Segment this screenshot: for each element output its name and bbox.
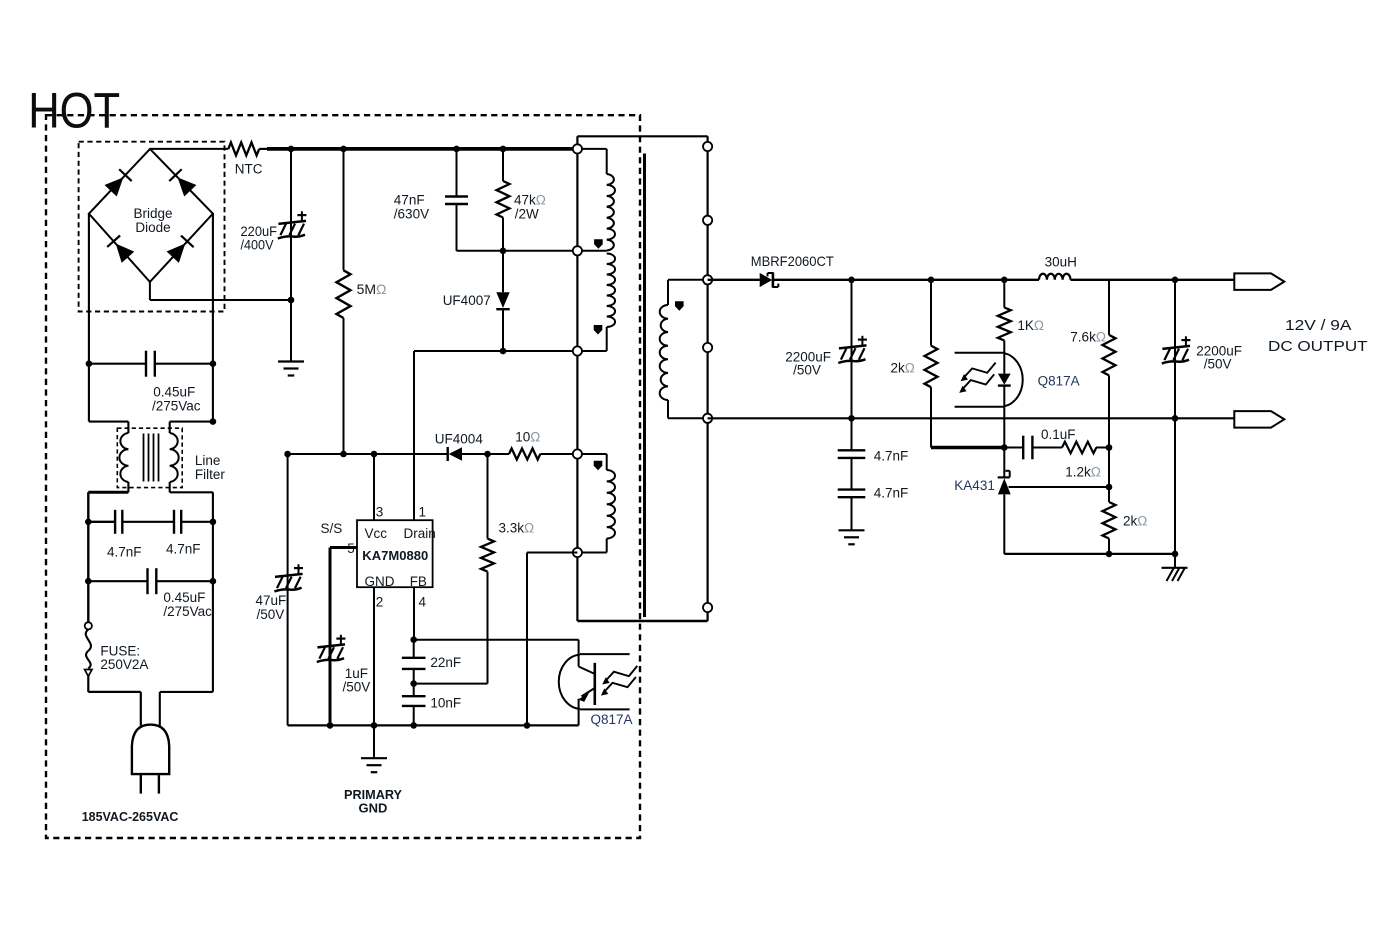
svg-text:4.7nF: 4.7nF <box>874 486 909 501</box>
node junction out cap1 <box>848 277 855 284</box>
wire 47k top lead <box>502 149 504 181</box>
resistor R3 10 ohm <box>509 449 540 460</box>
output terminal + (arrow) <box>1234 273 1284 290</box>
ground (primary bulk) <box>278 362 304 376</box>
capacitor C5 22nF <box>402 658 426 669</box>
output terminal - (arrow) <box>1234 411 1284 428</box>
ground (PRIMARY GND) <box>361 758 387 772</box>
node junction UF4007-drain <box>500 348 507 355</box>
ground (secondary chassis) <box>1162 568 1188 581</box>
wire pin4 FB <box>413 587 415 640</box>
wire bridge right vertex down to X-cap <box>212 214 214 364</box>
svg-text:KA7M0880: KA7M0880 <box>362 548 428 563</box>
wire 0.1uF to 1.2k <box>1032 447 1062 449</box>
svg-text:10nF: 10nF <box>430 696 461 711</box>
svg-text:/400V: /400V <box>241 238 274 253</box>
label Q817A (primary) <box>591 712 633 727</box>
transformer secondary winding <box>660 280 708 419</box>
label 1uF /50V <box>343 666 371 695</box>
svg-text:4.7nF: 4.7nF <box>874 449 909 464</box>
polarity dot winding2 <box>594 325 603 335</box>
wire 4.7nF bottom <box>851 497 853 530</box>
capacitor C9 4.7nF <box>838 490 866 498</box>
wire KA431 anode <box>1003 494 1005 554</box>
label 47kΩ /2W <box>514 193 546 222</box>
wire 2200uF#1 column <box>851 280 853 419</box>
inductor L1 30uH <box>1039 274 1071 280</box>
wire 5M bottom lead to Vcc rail <box>343 318 345 454</box>
resistor R1 5M <box>337 270 351 318</box>
svg-text:Vcc: Vcc <box>365 526 388 541</box>
wire snubber node to transformer <box>457 250 578 252</box>
label 3.3kΩ <box>499 521 535 536</box>
label FUSE 250V2A <box>100 644 148 673</box>
svg-text:Filter: Filter <box>195 467 226 482</box>
capacitor C3 47uF/50V (electrolytic) <box>274 564 303 591</box>
resistor R5 2k <box>925 346 938 388</box>
wire 22nF top lead <box>413 640 415 658</box>
node junction KA431 cathode net <box>1001 444 1008 451</box>
svg-text:UF4004: UF4004 <box>435 432 484 447</box>
wire UF4007 anode lead <box>502 251 504 292</box>
line filter dashed box <box>117 428 182 487</box>
wire Vcc rail left segment <box>288 453 448 455</box>
diode D5 UF4007 <box>496 292 509 351</box>
label 10nF <box>430 696 461 711</box>
label 4.7nF (left) <box>107 545 142 560</box>
label 22nF <box>430 655 461 670</box>
pin 1 label <box>419 505 427 520</box>
wire right leg to plug <box>160 692 213 726</box>
wire bridge bottom vertex to primary bulk cap <box>150 282 291 300</box>
terminal pin primary mid <box>573 246 582 255</box>
wire pin2 GND <box>373 587 375 725</box>
node junction gnd-pin2 <box>371 722 378 729</box>
svg-text:/50V: /50V <box>1204 357 1232 372</box>
node junction UF4004-10ohm-3.3k <box>484 451 491 458</box>
pin 2 label <box>376 595 384 610</box>
wire 22nF-10nF node <box>413 669 415 696</box>
label 1.2kΩ <box>1065 465 1101 480</box>
label HOT <box>28 81 120 138</box>
terminal pin sec 2 <box>703 216 712 225</box>
wire 10nF bottom lead <box>413 706 415 726</box>
line filter core lines <box>144 434 159 482</box>
svg-text:HOT: HOT <box>28 81 120 138</box>
svg-text:47kΩ: 47kΩ <box>514 193 546 208</box>
capacitor C8 4.7nF <box>838 450 866 458</box>
wire 1.2k to 7.6k column <box>1096 447 1109 449</box>
node junction capcolumn-gnd <box>1172 551 1179 558</box>
node junction gnd-S/S <box>327 722 334 729</box>
wire drain vertical to IC pin1 <box>413 351 415 520</box>
wire 47k bottom lead <box>502 218 504 251</box>
wire 1K to LED <box>1003 341 1005 374</box>
label 2kΩ (opto) <box>891 361 915 376</box>
pin 5 label <box>347 541 355 556</box>
line filter left coil <box>119 433 128 482</box>
svg-text:KA431: KA431 <box>954 478 995 493</box>
terminal pin sec 1 <box>703 142 712 151</box>
svg-text:4: 4 <box>419 595 427 610</box>
node junction 2k top <box>928 277 935 284</box>
wire 3.3k top lead <box>487 454 489 539</box>
wire 220uF column <box>290 149 292 362</box>
wire secondary to MBRF anode <box>708 279 760 281</box>
node junction Vcc-5M <box>340 451 347 458</box>
svg-text:/50V: /50V <box>257 607 285 622</box>
resistor R8 7.6k <box>1103 335 1116 376</box>
svg-text:Drain: Drain <box>404 526 436 541</box>
wire Y-cap link <box>88 521 213 523</box>
bridge diode D1 (left-top arm) <box>104 169 131 196</box>
wire FB node to optocoupler <box>414 639 579 641</box>
svg-text:/275Vac: /275Vac <box>152 399 201 414</box>
node junction bottom cap1 <box>848 415 855 422</box>
wire fuse to plug <box>88 676 141 725</box>
bridge diode D2 (top-right arm) <box>169 169 196 196</box>
label 2200uF /50V (first) <box>785 350 831 378</box>
svg-text:NTC: NTC <box>235 162 263 177</box>
label Bridge Diode <box>133 206 172 235</box>
wire drain node horizontal <box>414 350 577 352</box>
capacitor C4 1uF/50V (electrolytic) <box>317 635 346 662</box>
svg-text:/2W: /2W <box>515 206 539 221</box>
node junction snubber <box>500 248 507 255</box>
capacitor C13 4.7nF (Y-cap left) <box>115 510 122 534</box>
wire 1K top lead <box>1003 280 1005 308</box>
node junction FB-22nF <box>410 636 417 643</box>
svg-text:4.7nF: 4.7nF <box>107 545 142 560</box>
label DC OUTPUT <box>1268 339 1368 355</box>
label 7.6kΩ <box>1070 330 1106 345</box>
label PRIMARY GND <box>344 787 402 816</box>
label 2200uF /50V (second) <box>1196 344 1242 372</box>
svg-text:10Ω: 10Ω <box>515 430 540 445</box>
label KA7M0880 <box>362 548 428 563</box>
transformer primary winding 1 <box>577 149 615 251</box>
polarity dot winding1 <box>594 239 603 249</box>
node junction comp net <box>1106 444 1113 451</box>
label UF4004 <box>435 432 484 447</box>
terminal pin primary bottom <box>573 346 582 355</box>
wire aux winding return <box>527 553 577 726</box>
label Drain pin name <box>404 526 436 541</box>
wire 3.3k to 10nF node <box>414 683 488 685</box>
wire bridge left vertex down to X-cap <box>88 214 90 364</box>
capacitor C12 0.45uF/275Vac (X-cap 1) <box>89 351 213 377</box>
svg-text:250V2A: 250V2A <box>100 657 148 672</box>
svg-text:3.3kΩ: 3.3kΩ <box>499 521 535 536</box>
wire secondary reference ground run <box>1004 553 1175 555</box>
pin 3 label <box>376 505 384 520</box>
node junction at 47k snubber <box>500 146 507 153</box>
capacitor C7 2200uF/50V (electrolytic) <box>838 336 867 363</box>
wire 2k to KA431 node (thick) <box>931 446 1004 449</box>
label 0.45uF /275Vac (first) <box>152 385 201 414</box>
label 47nF /630V <box>394 193 429 222</box>
wire 5M top lead <box>343 149 345 270</box>
node junction xcap2 right <box>210 578 217 585</box>
node junction 1K top <box>1001 277 1008 284</box>
polarity dot secondary winding <box>675 301 684 311</box>
terminal pin primary top <box>573 144 582 153</box>
wire 2k bottom lead <box>930 387 932 447</box>
wire 47nF top lead <box>456 149 458 197</box>
line filter right coil <box>170 433 179 482</box>
label KA431 <box>954 478 995 493</box>
label UF4007 <box>443 293 491 308</box>
capacitor C1 220uF/400V (electrolytic) <box>278 211 307 238</box>
label 1KΩ <box>1017 318 1044 333</box>
label 12V / 9A <box>1285 318 1352 334</box>
label 4.7nF (upper) <box>874 449 909 464</box>
svg-text:4.7nF: 4.7nF <box>166 542 201 557</box>
wire pin5 S/S <box>330 548 357 726</box>
label 2kΩ (divider) <box>1123 514 1147 529</box>
node junction 22nF-10nF-3.3k <box>410 680 417 687</box>
optocoupler Q817A phototransistor (primary side) <box>559 640 638 726</box>
node junction Vcc-pin3 <box>371 451 378 458</box>
wire ground stub <box>373 725 375 758</box>
wire 3.3k bottom lead <box>487 572 489 684</box>
svg-text:185VAC-265VAC: 185VAC-265VAC <box>82 809 179 824</box>
node junction ycap left <box>85 519 92 526</box>
resistor R2 47k/2W <box>497 181 510 218</box>
node junction at 220uF cap <box>288 146 295 153</box>
resistor NTC <box>228 142 259 155</box>
terminal pin aux top <box>573 449 582 458</box>
label GND pin name <box>365 574 395 589</box>
wire LED to KA431 node <box>1003 386 1005 448</box>
terminal pin sec 5 <box>703 414 712 423</box>
svg-text:FB: FB <box>410 574 427 589</box>
svg-text:Q817A: Q817A <box>591 712 633 727</box>
svg-text:Diode: Diode <box>135 220 170 235</box>
svg-text:0.45uF: 0.45uF <box>163 590 205 605</box>
shunt regulator U2 KA431 <box>998 448 1109 495</box>
label 220uF /400V <box>241 224 278 253</box>
svg-text:1: 1 <box>419 505 427 520</box>
wire filter right out <box>170 482 213 692</box>
terminal pin sec 3 <box>703 275 712 284</box>
label Vcc pin name <box>365 526 388 541</box>
pin 4 label <box>419 595 427 610</box>
wire 4.7nF mid <box>851 458 853 490</box>
svg-text:Line: Line <box>195 453 221 468</box>
svg-text:2kΩ: 2kΩ <box>1123 514 1147 529</box>
terminal pin sec 4 <box>703 343 712 352</box>
label 47uF /50V <box>256 593 287 622</box>
wire 2k divider bottom <box>1108 539 1110 554</box>
node junction at 5M resistor <box>340 146 347 153</box>
capacitor C6 10nF <box>402 696 426 706</box>
label 4.7nF (right) <box>166 542 201 557</box>
svg-text:/275Vac: /275Vac <box>163 604 212 619</box>
bridge diode D3 (bottom-left arm) <box>107 235 134 262</box>
wire filter left out <box>88 482 128 625</box>
resistor R7 1.2k <box>1062 442 1096 454</box>
wire primary ground rail <box>288 724 579 726</box>
wire 4.7nF stack top <box>851 418 853 450</box>
label 0.1uF <box>1041 427 1076 442</box>
node junction xcap1 left <box>86 360 93 367</box>
diode D7 MBRF2060CT (schottky) <box>760 272 779 287</box>
svg-text:0.1uF: 0.1uF <box>1041 427 1076 442</box>
svg-text:DC OUTPUT: DC OUTPUT <box>1268 339 1368 355</box>
svg-text:UF4007: UF4007 <box>443 293 491 308</box>
label Q817A (secondary) <box>1038 374 1080 389</box>
svg-text:30uH: 30uH <box>1045 255 1077 270</box>
ground (secondary 4.7nF) <box>839 530 865 544</box>
svg-text:2kΩ: 2kΩ <box>891 361 915 376</box>
node junction right filter corner <box>210 418 217 425</box>
resistor R4 3.3k <box>481 539 494 572</box>
svg-text:47uF: 47uF <box>256 593 287 608</box>
node junction at 47nF snubber <box>453 146 460 153</box>
wire 2k top lead <box>930 280 932 346</box>
capacitor C10 0.1uF <box>1023 436 1032 460</box>
label S/S <box>321 521 343 536</box>
wire 2200uF#2 column <box>1174 280 1176 554</box>
wire inductor to output+ <box>1071 279 1235 281</box>
wire 47uF column <box>287 454 289 725</box>
node junction Vcc-47uF <box>284 451 291 458</box>
capacitor C11 2200uF/50V (electrolytic) <box>1162 336 1191 363</box>
transformer aux winding <box>577 454 615 553</box>
svg-text:12V / 9A: 12V / 9A <box>1285 318 1352 334</box>
wire NTC to transformer (HV+ rail) <box>259 148 577 150</box>
label MBRF2060CT <box>751 253 834 269</box>
capacitor C15 0.45uF/275Vac (X-cap 2) <box>88 568 213 594</box>
terminal pin sec 6 <box>703 603 712 612</box>
node junction ycap right <box>210 519 217 526</box>
svg-text:Q817A: Q817A <box>1038 374 1080 389</box>
wire 10ohm to aux winding <box>540 453 577 455</box>
wire MBRF cathode to inductor <box>773 279 1039 281</box>
node junction bridge return at bulk cap <box>288 297 295 304</box>
optocoupler Q817A LED (secondary side) <box>955 353 1023 407</box>
svg-text:1.2kΩ: 1.2kΩ <box>1065 465 1101 480</box>
label 30uH <box>1045 255 1077 270</box>
node junction divider-gnd <box>1106 551 1113 558</box>
node junction ref net <box>1106 484 1113 491</box>
transformer T1 outer frame <box>577 136 707 621</box>
svg-text:47nF: 47nF <box>394 193 425 208</box>
svg-text:0.45uF: 0.45uF <box>153 385 195 400</box>
node junction gnd-10nF <box>410 722 417 729</box>
label 5MΩ <box>357 281 387 297</box>
svg-text:GND: GND <box>365 574 395 589</box>
node junction xcap1 right <box>210 360 217 367</box>
svg-text:/630V: /630V <box>394 206 429 221</box>
svg-text:MBRF2060CT: MBRF2060CT <box>751 253 834 269</box>
wire 7.6k top lead <box>1108 280 1110 335</box>
wire pin3 Vcc <box>373 454 375 520</box>
bridge diode diamond outline <box>89 149 213 282</box>
svg-text:1KΩ: 1KΩ <box>1017 318 1044 333</box>
HOT isolation boundary (dashed box) <box>46 115 640 838</box>
label 10Ω <box>515 430 540 445</box>
wire left leg to line filter <box>89 364 128 433</box>
svg-text:5MΩ: 5MΩ <box>357 281 387 297</box>
resistor R9 2k (divider) <box>1103 502 1116 539</box>
wire node to 0.1uF <box>1004 447 1023 449</box>
node junction out cap2 top <box>1172 277 1179 284</box>
svg-text:7.6kΩ: 7.6kΩ <box>1070 330 1106 345</box>
resistor R6 1K <box>998 308 1011 341</box>
wire 47nF bottom lead <box>456 204 458 251</box>
polarity dot aux winding <box>594 461 603 471</box>
transformer core bar <box>643 154 646 618</box>
node junction gnd-aux <box>524 722 531 729</box>
node junction xcap2 left <box>85 578 92 585</box>
svg-text:2: 2 <box>376 595 384 610</box>
label 0.45uF /275Vac (second) <box>163 590 212 619</box>
label 4.7nF (lower) <box>874 486 909 501</box>
svg-text:S/S: S/S <box>321 521 343 536</box>
wire chassis gnd stub <box>1174 554 1176 568</box>
label 185VAC-265VAC <box>82 809 179 824</box>
node junction bottom cap2 <box>1172 415 1179 422</box>
wire secondary bottom rail <box>708 417 1235 419</box>
AC plug <box>132 725 169 794</box>
fuse F1 250V 2A <box>85 622 92 676</box>
svg-text:/50V: /50V <box>793 363 821 378</box>
op-amp/controller U1 KA7M0880 box <box>357 520 433 587</box>
wire 7.6k bottom lead <box>1108 375 1110 502</box>
label Line Filter <box>195 453 226 482</box>
bridge diode D4 (bottom-right arm) <box>166 236 193 263</box>
capacitor C14 4.7nF (Y-cap right) <box>174 510 181 534</box>
bridge rectifier dashed box <box>79 142 225 312</box>
transformer primary winding 2 <box>577 254 615 352</box>
svg-text:22nF: 22nF <box>430 655 461 670</box>
svg-text:3: 3 <box>376 505 384 520</box>
capacitor C2 47nF/630V <box>445 197 468 205</box>
diode D6 UF4004 <box>448 447 509 461</box>
label NTC <box>235 162 263 177</box>
wire bridge top vertex to NTC <box>150 148 228 150</box>
svg-text:/50V: /50V <box>343 680 371 695</box>
terminal pin aux bottom <box>573 548 582 557</box>
svg-text:GND: GND <box>359 801 388 816</box>
wire right leg to line filter <box>170 364 213 433</box>
label FB pin name <box>410 574 427 589</box>
